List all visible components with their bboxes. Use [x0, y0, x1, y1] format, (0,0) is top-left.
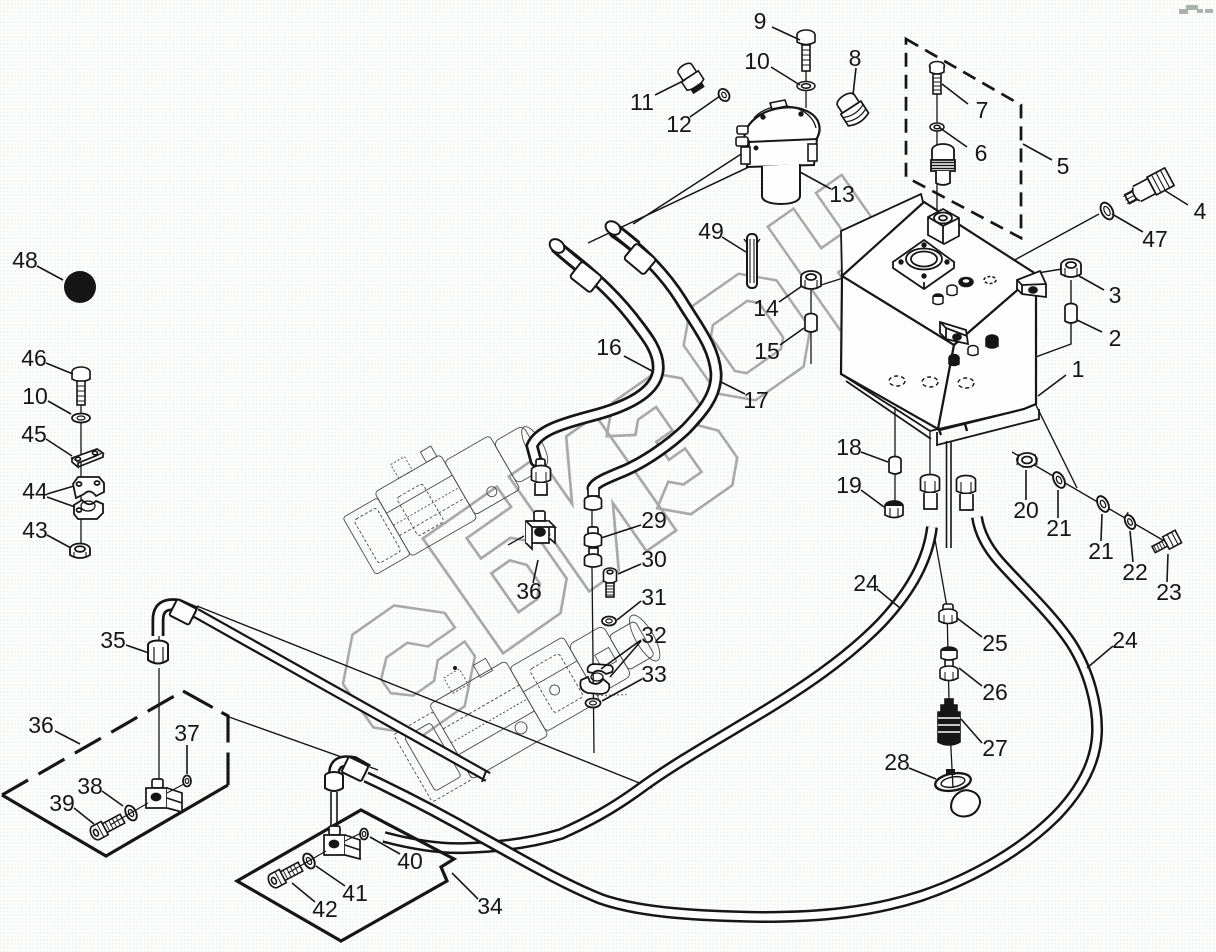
svg-text:40: 40 [397, 848, 423, 874]
washer 47 [1098, 200, 1116, 221]
long leader to filter (hose16) [588, 156, 772, 243]
hose 17 [593, 232, 716, 488]
cap nut 19 [885, 501, 903, 518]
dashed box 5 [906, 39, 1021, 238]
svg-text:2: 2 [1109, 325, 1122, 351]
fitting 29 [585, 487, 602, 567]
svg-text:25: 25 [982, 630, 1008, 656]
fitting 4 [1121, 168, 1175, 209]
svg-text:11: 11 [630, 89, 654, 115]
svg-text:27: 27 [982, 735, 1008, 761]
elbow 40 drop pipe [331, 792, 337, 828]
fastener row axis 20-23 [1012, 452, 1166, 542]
bolt 7 [930, 62, 945, 95]
svg-text:31: 31 [641, 584, 667, 610]
nut 14 [801, 271, 821, 289]
svg-text:16: 16 [596, 334, 622, 360]
long leader to filter (hose17) [633, 147, 752, 224]
svg-text:35: 35 [100, 627, 126, 653]
svg-text:30: 30 [641, 546, 667, 572]
tank hose fitting left [921, 475, 940, 510]
axis 29-33 to pump [592, 505, 594, 753]
washer 37 [183, 776, 191, 787]
washer 31 [602, 617, 616, 626]
svg-text:20: 20 [1013, 497, 1039, 523]
spacer 2 [1065, 304, 1077, 324]
bolt 42 [266, 860, 304, 890]
tank body [841, 202, 1036, 430]
bolt 9 [797, 30, 815, 71]
bolt 23 [1150, 530, 1181, 556]
svg-text:23: 23 [1156, 579, 1182, 605]
svg-text:38: 38 [77, 773, 103, 799]
pin 49 [744, 234, 760, 288]
fitting 26 [940, 647, 958, 681]
pump assembly lower (faint line art) [381, 576, 672, 805]
nut 43 [70, 544, 90, 559]
coupler 27 [938, 699, 960, 745]
tank back panel [841, 194, 924, 277]
washer 40 [360, 829, 368, 840]
hose 24 right [366, 517, 1097, 917]
svg-text:37: 37 [174, 720, 200, 746]
watermark BIZON [323, 175, 914, 756]
axis elbow35 column [158, 628, 160, 781]
elbow fitting 36a [526, 511, 555, 549]
plug 8 [833, 89, 870, 128]
fitting (hose16 end) [532, 459, 551, 495]
leader elbow35 to pump [197, 606, 652, 788]
elbow fitting 40 (bracket) [324, 826, 360, 859]
o-ring 12 [716, 87, 731, 103]
svg-text:44: 44 [22, 478, 48, 504]
lock washer 22 [1122, 511, 1138, 530]
bolt 30 [604, 568, 617, 597]
washer 21a [1051, 470, 1068, 490]
svg-text:43: 43 [22, 517, 48, 543]
nut 40 elbow [325, 772, 343, 791]
svg-text:24: 24 [853, 570, 879, 596]
leader pump1 to elbow36 [508, 536, 524, 545]
filter canister [762, 164, 800, 204]
elbow fitting 36-box (38 bracket) [146, 779, 182, 812]
svg-text:3: 3 [1109, 282, 1122, 308]
svg-text:36: 36 [516, 578, 542, 604]
washer 41 [301, 852, 317, 871]
axis bolt7-breather [936, 94, 938, 210]
nut 20 [1017, 453, 1037, 467]
axis bolt9-washer10 [805, 57, 807, 108]
svg-text:26: 26 [982, 679, 1008, 705]
svg-text:45: 45 [21, 421, 47, 447]
top plugs [933, 277, 996, 305]
svg-text:29: 29 [641, 507, 667, 533]
axis quick coupler column [933, 528, 953, 788]
leader 47 to tank port [976, 214, 1099, 281]
axis tank corner to fitting [929, 431, 931, 477]
breather cap [931, 144, 955, 185]
svg-text:48: 48 [12, 247, 38, 273]
filler cube on top [928, 209, 959, 244]
svg-text:34: 34 [477, 893, 503, 919]
washer 10 top [797, 82, 815, 91]
washer 33 [586, 699, 601, 708]
svg-text:17: 17 [743, 387, 769, 413]
svg-text:49: 49 [698, 218, 724, 244]
svg-text:42: 42 [312, 896, 338, 922]
leader axis in box34 [288, 851, 326, 873]
filter head [736, 100, 824, 204]
svg-text:12: 12 [666, 111, 692, 137]
svg-text:13: 13 [829, 181, 855, 207]
svg-text:28: 28 [884, 749, 910, 775]
clamp 44 upper [73, 477, 104, 498]
fitting 25 [939, 604, 957, 624]
front face plugs [949, 335, 998, 366]
tube from elbow 35 [196, 613, 488, 782]
spacer 18 [889, 457, 901, 475]
svg-text:1: 1 [1072, 356, 1085, 382]
nut 35 [148, 641, 168, 664]
washer 6 [930, 123, 944, 131]
hose 16 ferrule [570, 261, 603, 293]
svg-text:33: 33 [641, 661, 667, 687]
svg-text:7: 7 [976, 97, 989, 123]
plate 45 [72, 449, 103, 467]
bolt 39 [88, 812, 126, 842]
tank stand leg [947, 441, 952, 548]
tiny dot [453, 666, 457, 670]
tank bottom skirt [841, 374, 1039, 445]
svg-text:18: 18 [836, 434, 862, 460]
leader port to washers row [976, 284, 1077, 488]
leader nut14 to flange [818, 263, 890, 286]
pump assembly upper (faint line art) [332, 394, 559, 577]
axis 14-15 [810, 290, 812, 364]
washer 38 [123, 804, 139, 823]
svg-text:19: 19 [836, 472, 862, 498]
svg-text:24: 24 [1112, 627, 1138, 653]
hose 17 ferrule [624, 243, 657, 275]
svg-text:4: 4 [1194, 198, 1207, 224]
filter side ports [737, 126, 748, 134]
clamp halves 32 [580, 664, 613, 694]
spacer 15 [805, 314, 817, 333]
svg-text:8: 8 [849, 45, 862, 71]
washer 10 left [72, 414, 90, 423]
tank hose fitting right [957, 476, 976, 511]
corner stamp [1179, 5, 1213, 14]
svg-text:10: 10 [744, 48, 770, 74]
nut 3 [1061, 259, 1081, 277]
hose 16 [532, 251, 658, 461]
axis 18-19 [894, 407, 896, 503]
svg-text:6: 6 [975, 140, 988, 166]
bolt 46 [72, 367, 90, 405]
svg-text:5: 5 [1057, 153, 1070, 179]
front dashed holes [889, 376, 974, 388]
hose 17 elbow end [603, 218, 636, 247]
washer 21b [1095, 494, 1112, 514]
svg-text:22: 22 [1122, 559, 1148, 585]
box 34 [237, 810, 454, 941]
leader axis in box36 [110, 803, 148, 825]
ear bracket right edge [1017, 271, 1046, 297]
svg-text:14: 14 [753, 295, 779, 321]
axis left column 46-43 [80, 390, 82, 552]
svg-text:9: 9 [754, 8, 767, 34]
clamp 44 lower [74, 500, 103, 519]
elbow 40 [334, 761, 368, 790]
sensor 11 [674, 60, 707, 95]
leader box36 to elbow40 [229, 717, 378, 770]
leader spacer2 to tank [973, 280, 1071, 380]
square flange on top [893, 240, 954, 289]
svg-text:21: 21 [1088, 538, 1114, 564]
leader port to nut3 [976, 269, 1062, 283]
svg-text:46: 46 [21, 345, 47, 371]
svg-text:41: 41 [342, 880, 368, 906]
clamp 28 [934, 769, 983, 821]
svg-text:15: 15 [754, 338, 780, 364]
hose 24 left [384, 527, 932, 848]
svg-text:21: 21 [1046, 515, 1072, 541]
svg-text:36: 36 [28, 712, 54, 738]
svg-text:47: 47 [1142, 226, 1168, 252]
hose 16 elbow end [547, 236, 583, 269]
plug 48 [64, 271, 96, 303]
ear bracket front edge [940, 322, 968, 344]
svg-text:10: 10 [22, 383, 48, 409]
elbow 35 [158, 605, 196, 636]
svg-text:39: 39 [49, 790, 75, 816]
box 36 lower [2, 691, 228, 856]
svg-text:32: 32 [641, 622, 667, 648]
